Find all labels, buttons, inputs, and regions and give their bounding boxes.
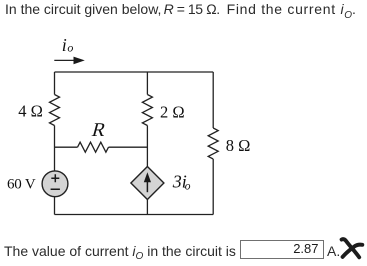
dependent current source 3io <box>131 167 164 200</box>
voltage source 60V <box>42 171 68 197</box>
wire R-branch right <box>109 146 148 148</box>
resistor 8ohm <box>208 128 218 159</box>
svg-text:o: o <box>185 180 191 192</box>
current io arrow <box>54 57 85 65</box>
wire left-upper <box>54 72 56 95</box>
wire middle-lower <box>146 200 148 215</box>
resistor 4ohm <box>50 95 60 126</box>
label R <box>90 119 110 141</box>
svg-text:4 Ω: 4 Ω <box>18 101 43 120</box>
resistor R <box>78 142 109 152</box>
svg-text:o: o <box>67 41 73 55</box>
answer input box <box>240 240 324 259</box>
svg-text:2 Ω: 2 Ω <box>160 102 185 121</box>
units label <box>327 243 340 259</box>
wire right-lower <box>212 159 214 215</box>
svg-text:8 Ω: 8 Ω <box>226 136 251 155</box>
wire left-lower <box>54 197 56 215</box>
wire bottom <box>55 214 214 216</box>
wire R-branch left <box>55 146 78 148</box>
problem statement text <box>5 1 161 17</box>
wire right-upper <box>212 72 214 128</box>
incorrect X mark <box>342 239 363 257</box>
wire top <box>55 71 214 73</box>
wire middle-upper <box>146 72 148 95</box>
answer sentence <box>4 243 236 259</box>
wire middle-mid <box>146 126 148 167</box>
svg-text:R: R <box>90 119 110 141</box>
wire left-mid <box>54 126 56 172</box>
svg-text:i: i <box>62 35 67 55</box>
svg-text:60 V: 60 V <box>7 177 36 193</box>
resistor 2ohm <box>142 95 152 126</box>
